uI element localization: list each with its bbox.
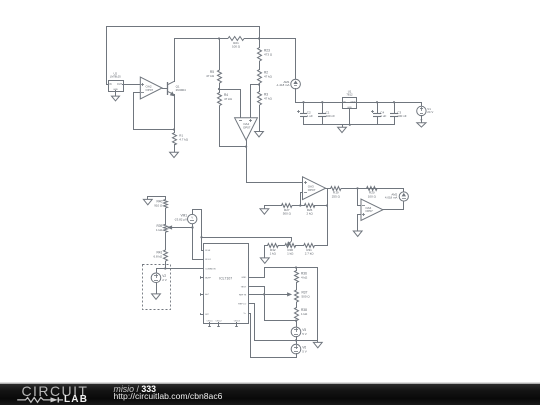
- svg-text:255 Ω: 255 Ω: [332, 194, 341, 198]
- svg-text:REF HI: REF HI: [239, 294, 247, 296]
- svg-text:LM78L05: LM78L05: [110, 75, 121, 79]
- svg-text:OSC3: OSC3: [234, 321, 241, 323]
- svg-text:7812: 7812: [346, 93, 353, 97]
- svg-text:6.8 kΩ: 6.8 kΩ: [154, 255, 164, 259]
- svg-text:100 nF: 100 nF: [397, 114, 407, 118]
- svg-text:1 kΩ: 1 kΩ: [301, 312, 308, 316]
- svg-text:A-Z: A-Z: [205, 293, 209, 296]
- svg-text:BUFF: BUFF: [205, 277, 211, 279]
- svg-text:1 kΩ: 1 kΩ: [270, 252, 277, 256]
- svg-text:100 Ω: 100 Ω: [232, 45, 241, 49]
- svg-text:2.7 kΩ: 2.7 kΩ: [305, 252, 315, 256]
- svg-text:1 uF: 1 uF: [307, 114, 313, 118]
- svg-text:910 Ω: 910 Ω: [154, 203, 163, 207]
- svg-text:5 V: 5 V: [302, 332, 307, 336]
- svg-text:5 V: 5 V: [302, 349, 307, 353]
- svg-text:GND: GND: [241, 277, 246, 279]
- svg-text:1 uF: 1 uF: [380, 114, 386, 118]
- svg-text:47 kΩ: 47 kΩ: [264, 74, 273, 78]
- svg-text:OP07: OP07: [243, 125, 251, 129]
- svg-text:IN: IN: [109, 84, 112, 86]
- svg-text:V: V: [191, 216, 193, 220]
- svg-text:4 kΩ: 4 kΩ: [301, 275, 308, 279]
- svg-text:24 V: 24 V: [427, 110, 433, 114]
- svg-text:4.018 mA: 4.018 mA: [385, 196, 397, 200]
- svg-text:OUT: OUT: [117, 84, 122, 86]
- svg-text:OP07: OP07: [146, 88, 154, 92]
- svg-text:47 kΩ: 47 kΩ: [206, 74, 215, 78]
- svg-text:100 Ω: 100 Ω: [368, 194, 377, 198]
- svg-text:500 Ω: 500 Ω: [283, 212, 292, 216]
- svg-text:500 Ω: 500 Ω: [302, 294, 311, 298]
- svg-text:1 kΩ: 1 kΩ: [156, 228, 163, 232]
- svg-text:4.7 kΩ: 4.7 kΩ: [179, 138, 189, 142]
- svg-text:IN HI: IN HI: [205, 250, 210, 252]
- svg-text:OUT: OUT: [351, 102, 356, 104]
- svg-text:47 kΩ: 47 kΩ: [224, 97, 233, 101]
- svg-text:473 Ω: 473 Ω: [264, 52, 273, 56]
- svg-text:COMMON: COMMON: [205, 268, 216, 270]
- svg-text:IN: IN: [343, 102, 346, 104]
- svg-text:1 kΩ: 1 kΩ: [287, 252, 294, 256]
- svg-text:2N3904: 2N3904: [176, 88, 187, 92]
- svg-text:REF LO: REF LO: [238, 304, 246, 306]
- svg-text:OP07: OP07: [365, 209, 373, 213]
- svg-text:-1.418 mA: -1.418 mA: [276, 83, 289, 87]
- svg-text:ICL7107: ICL7107: [219, 277, 232, 281]
- svg-text:OP07: OP07: [308, 188, 316, 192]
- svg-text:V+: V+: [243, 313, 246, 315]
- svg-text:INT: INT: [205, 314, 209, 316]
- svg-text:-23.82 µV: -23.82 µV: [174, 218, 187, 222]
- svg-text:IN LO: IN LO: [205, 259, 211, 261]
- svg-text:2 kΩ: 2 kΩ: [306, 212, 313, 216]
- svg-text:100 nF: 100 nF: [326, 114, 336, 118]
- svg-text:47 kΩ: 47 kΩ: [264, 96, 273, 100]
- svg-text:2 V: 2 V: [162, 278, 167, 282]
- svg-text:TEST: TEST: [241, 286, 247, 288]
